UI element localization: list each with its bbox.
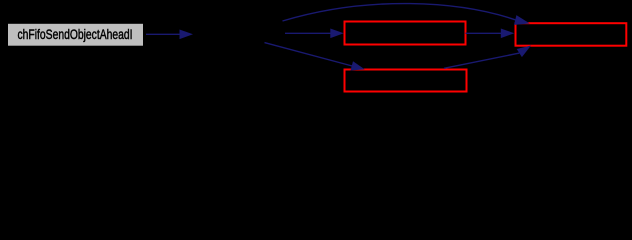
edge bottom red box to right red box: [444, 46, 531, 69]
edge hidden node to bottom red box: [265, 43, 365, 71]
edge middle red box to right red box: [466, 29, 515, 39]
node box2 (middle red truncated node): [345, 22, 466, 45]
node hidden (black middle node): [194, 23, 285, 46]
node box3 (bottom red truncated node): [345, 70, 467, 92]
node box4 (right red truncated node): [516, 23, 627, 46]
edge hidden node to right red box (top arc): [283, 4, 530, 25]
svg-text:chFifoSendObjectAheadI: chFifoSendObjectAheadI: [17, 27, 132, 43]
edge hidden node to middle red box: [285, 29, 344, 39]
node chFifoSendObjectAheadI (current function, grey): [8, 23, 144, 46]
edge grey node to hidden node: [146, 30, 193, 40]
